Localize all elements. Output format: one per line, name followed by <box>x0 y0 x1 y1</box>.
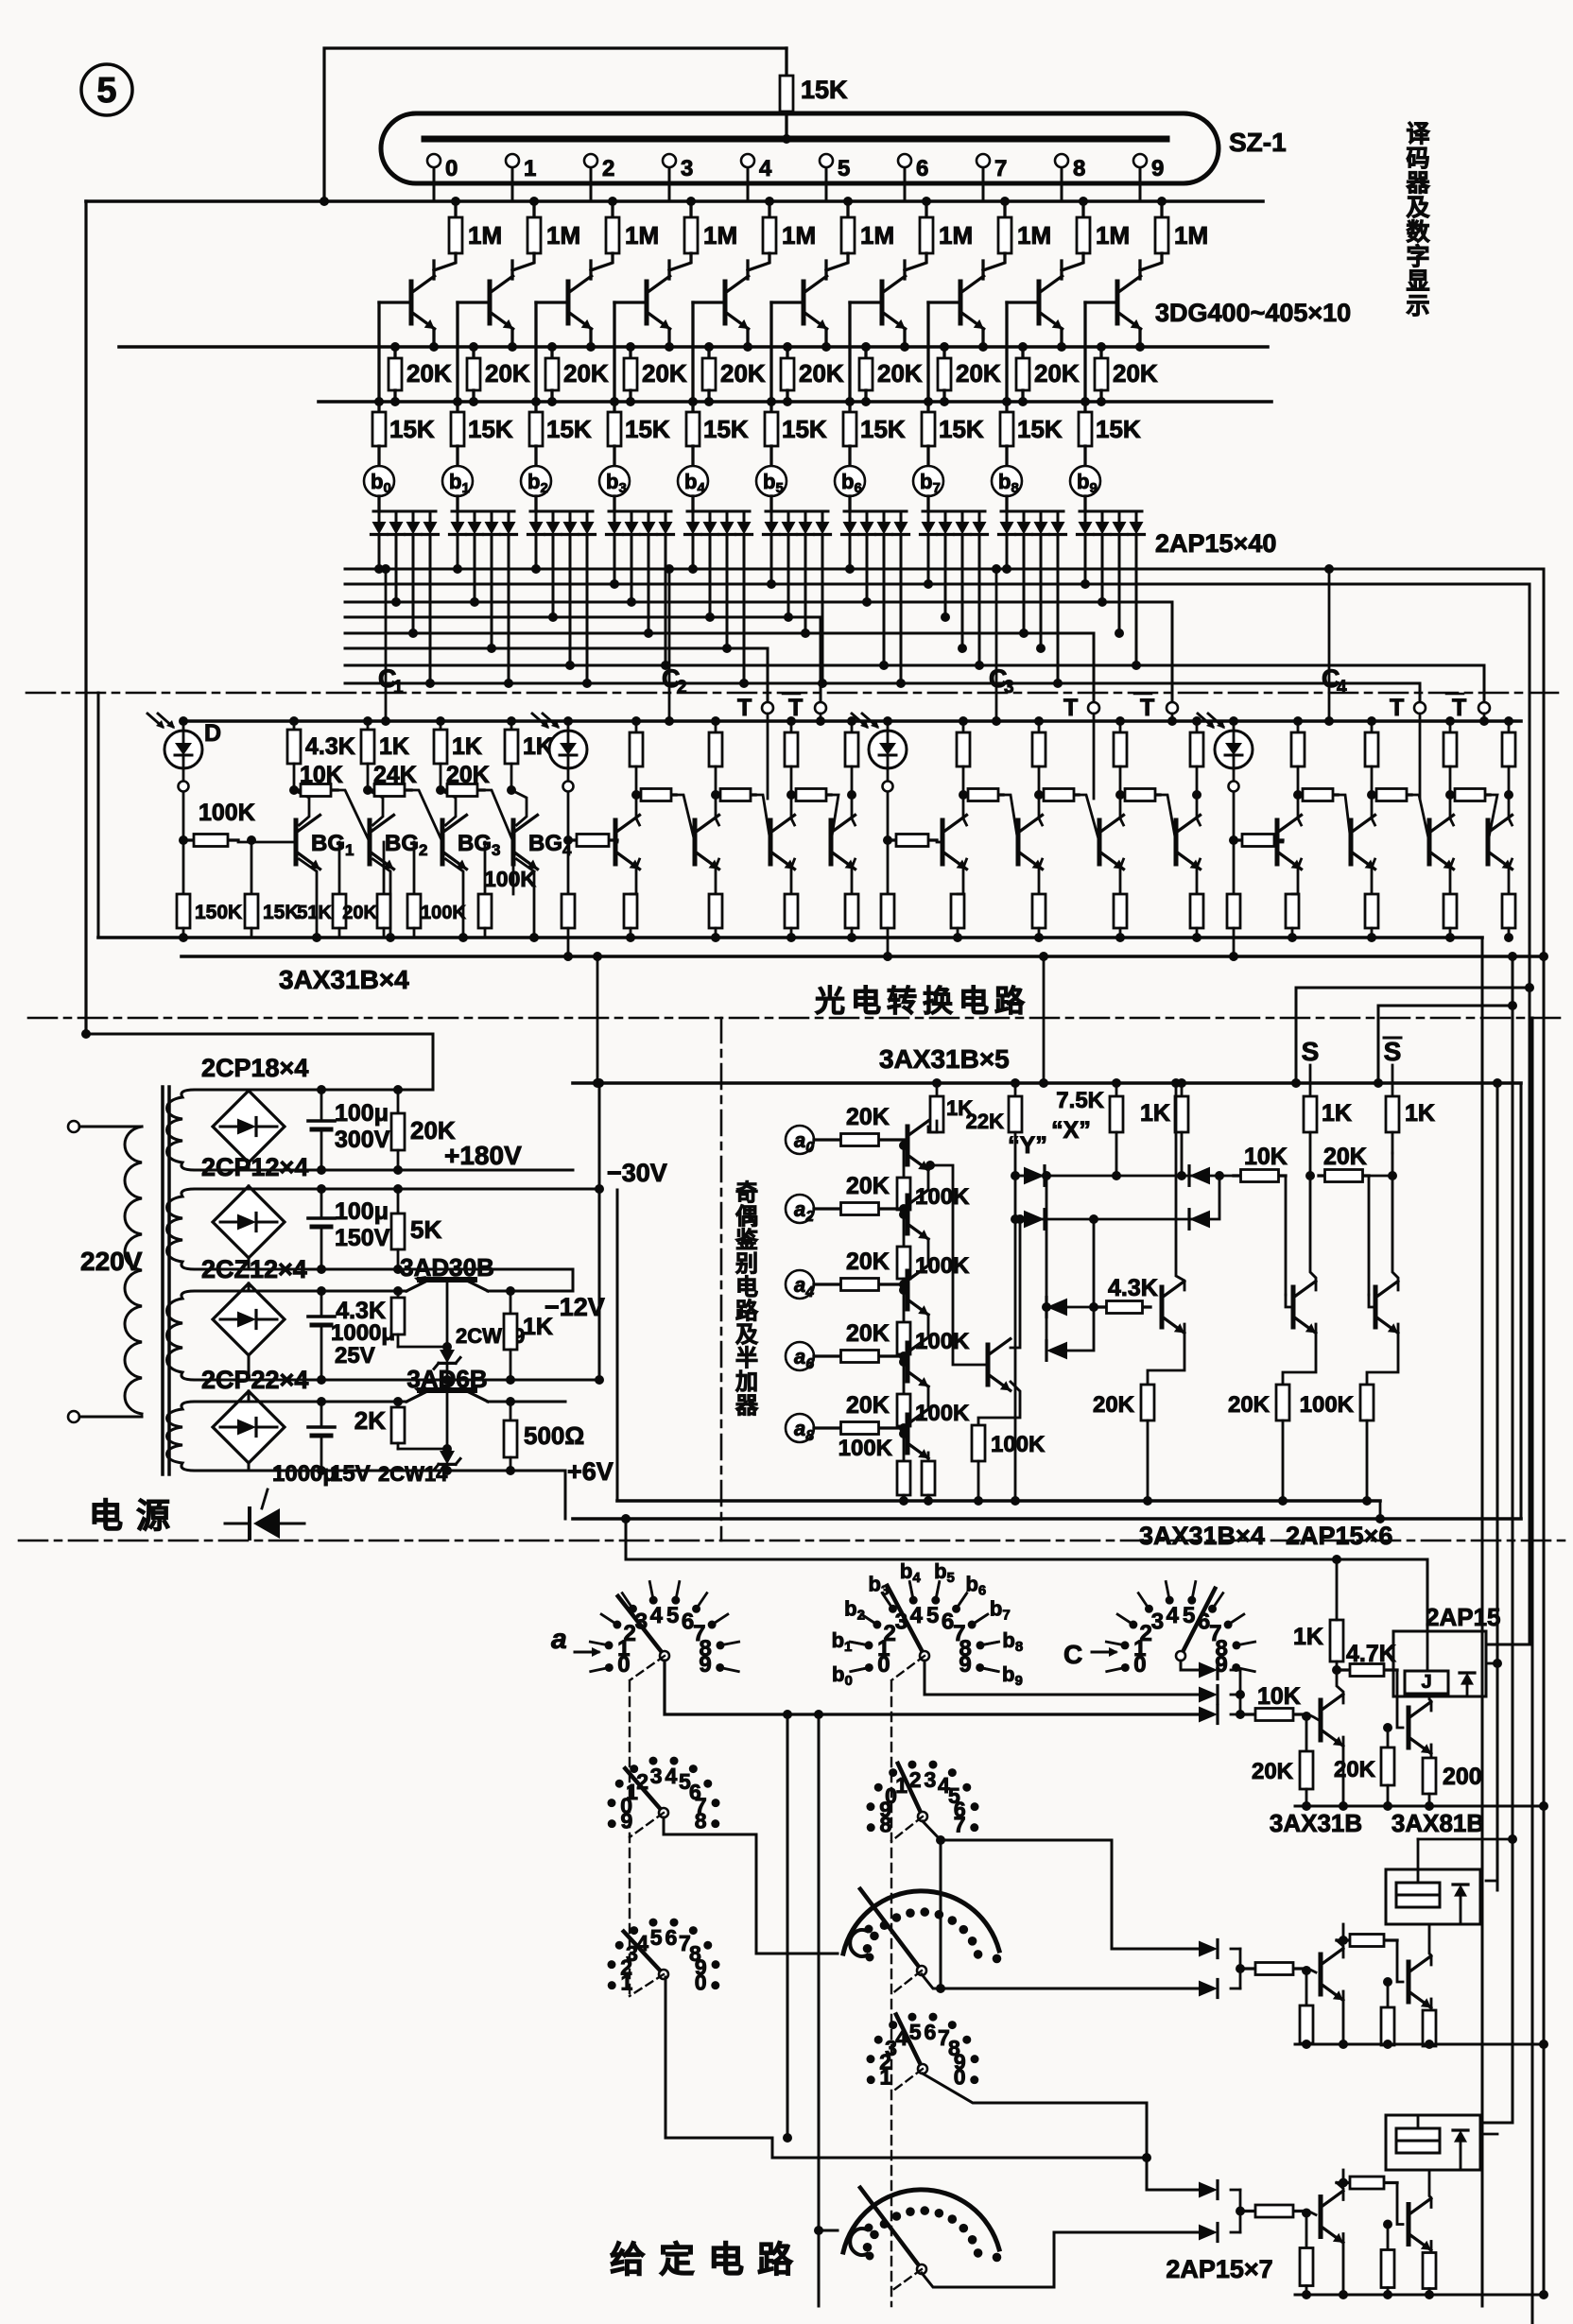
nixie tube SZ-1 envelope <box>381 113 1219 183</box>
capacitor 1000u25V <box>320 1291 323 1316</box>
svg-text:15K: 15K <box>546 415 592 443</box>
terminal Tbar <box>1478 702 1490 714</box>
resistor 4.3K parity <box>1098 1305 1107 1308</box>
wire collector x=1512 <box>1450 795 1454 825</box>
svg-text:15K: 15K <box>703 415 749 443</box>
svg-text:−30V: −30V <box>607 1159 667 1187</box>
transistor 3AX31B at x=651 <box>614 820 618 864</box>
wire S2-S3 link <box>572 1269 575 1291</box>
resistor emitter x=1163 <box>1114 894 1127 928</box>
resistor 500ohm <box>510 1402 512 1420</box>
wire vertical drop 2 <box>818 1714 821 2306</box>
wire +180V feed to nixie anode <box>324 48 786 201</box>
resistor 15K anode <box>785 48 787 76</box>
resistor base h at x=601 <box>568 838 577 841</box>
photodiode at x=939 <box>869 731 907 768</box>
svg-text:24K: 24K <box>373 762 417 788</box>
resistor 1M col1 <box>532 201 535 217</box>
wire emitter col7 <box>981 329 984 347</box>
rail +6V <box>249 1470 565 1472</box>
resistor 24K coupling BG2 <box>368 788 374 791</box>
rail S2 bottom <box>249 1268 573 1271</box>
svg-text:4.3K: 4.3K <box>305 733 355 760</box>
wire diode col6.2 to code bus 6 <box>883 535 886 665</box>
resistor 4.7K <box>1337 2181 1350 2184</box>
wire diode col7.0 to code bus 1 <box>927 535 930 584</box>
resistor 20K a4 <box>814 1283 841 1285</box>
wire emitter x=997 <box>963 859 967 894</box>
input a6 <box>786 1342 814 1370</box>
wire collector x=1429 <box>1372 795 1375 825</box>
wire sector I output <box>922 2232 1201 2287</box>
wire base col7 <box>928 301 960 303</box>
switch arm <box>1181 1589 1215 1656</box>
svg-text:200: 200 <box>1443 1764 1482 1790</box>
wire bridge to rails <box>195 1188 249 1191</box>
wire Q2 base <box>1397 1940 1403 1982</box>
wire switch a output <box>665 1661 1201 1714</box>
svg-text:2CP18×4: 2CP18×4 <box>201 1054 308 1082</box>
wire diode col9.1 to code bus 2 <box>1101 535 1104 602</box>
wire emitter x=1163 <box>1120 859 1124 894</box>
svg-text:1M: 1M <box>782 221 816 250</box>
wire relay3 right <box>1480 2133 1497 2136</box>
wire left border vertical <box>84 201 87 1034</box>
resistor base h at x=1305 <box>1234 838 1242 841</box>
svg-text:300V: 300V <box>335 1127 390 1153</box>
lamp b3 <box>599 466 630 496</box>
svg-text:9: 9 <box>1151 156 1164 181</box>
svg-text:示: 示 <box>1406 293 1429 319</box>
resistor 10K coupling BG1 <box>294 788 301 791</box>
wire -30V to bottom rail <box>616 1190 619 1501</box>
diode group col8 (4x 2AP15) <box>1005 496 1008 511</box>
resistor Q2 base-down <box>1383 2220 1392 2229</box>
wire Q1 collector <box>1337 1940 1343 1957</box>
resistor 10K <box>1240 1967 1255 1970</box>
svg-text:3: 3 <box>924 1767 936 1792</box>
svg-text:51K: 51K <box>297 903 332 923</box>
svg-text:2CP12×4: 2CP12×4 <box>201 1153 308 1181</box>
wire left border 2 <box>97 693 100 938</box>
resistor 20K col4 <box>707 347 710 358</box>
resistor emitter x=735 <box>709 894 722 928</box>
svg-text:100K: 100K <box>199 800 255 826</box>
svg-text:15K: 15K <box>1017 415 1063 443</box>
wire diode col2.3 to code bus 7 <box>586 535 589 683</box>
wire relay1 right <box>1486 1662 1497 1665</box>
resistor bottom 20K <box>383 842 386 894</box>
resistor bottom at x=601 <box>567 840 570 894</box>
bridge rectifier 2CP22×4 <box>213 1391 285 1463</box>
wire Q1 base-20K <box>1302 1712 1311 1721</box>
wire emitter col3 <box>667 329 670 347</box>
wire collector BG4 <box>511 790 527 825</box>
resistor emitter x=997 <box>951 894 964 928</box>
resistor 1M col8 <box>1081 201 1084 217</box>
svg-text:2AP15: 2AP15 <box>1426 1603 1501 1631</box>
wire base x=1512 <box>1428 841 1431 844</box>
svg-text:−12V: −12V <box>544 1293 605 1321</box>
sector switch arm <box>860 1889 922 1971</box>
wire collector x=815 <box>791 795 795 825</box>
svg-text:1000μ: 1000μ <box>331 1320 395 1346</box>
wire base BG1 <box>238 841 296 844</box>
wire diode col8.1 to code bus 4 <box>1023 535 1026 633</box>
wire emitter col8 <box>1060 329 1063 347</box>
svg-text:15K: 15K <box>468 415 513 443</box>
resistor 15K col1 <box>456 402 458 412</box>
svg-text:10K: 10K <box>1257 1683 1301 1710</box>
svg-text:15K: 15K <box>860 415 906 443</box>
wire right edge x1621 <box>1531 1018 1534 2324</box>
svg-text:7.5K: 7.5K <box>1056 1088 1104 1113</box>
svg-text:及: 及 <box>735 1322 758 1348</box>
svg-text:2: 2 <box>602 156 614 181</box>
svg-text:15K: 15K <box>625 415 670 443</box>
svg-text:2: 2 <box>677 678 687 697</box>
sector switch body <box>843 1891 999 1954</box>
transistor 3DG400 col3 <box>667 261 670 279</box>
wire emitter-collector stack 1 <box>927 1239 930 1265</box>
resistor 1K stack top <box>936 1083 939 1096</box>
transistor BG4 <box>511 820 516 864</box>
wire base x=1574 <box>1487 841 1490 844</box>
wire Sbar exit loop <box>1378 1006 1512 1083</box>
lamp b9 <box>1070 466 1100 496</box>
diode group col9 (4x 2AP15) <box>1083 496 1086 511</box>
svg-text:1M: 1M <box>546 221 580 250</box>
relay 1 diode <box>1461 1673 1474 1685</box>
relay input diodes <box>1199 2182 1218 2198</box>
svg-text:10K: 10K <box>1244 1144 1288 1170</box>
svg-text:1K: 1K <box>1293 1624 1323 1650</box>
diode group col3 (4x 2AP15) <box>613 496 615 511</box>
wire sector G output <box>922 1974 1201 1988</box>
rail S3 top <box>249 1290 406 1293</box>
transistor 3DG400 col8 <box>1060 261 1063 279</box>
svg-text:20K: 20K <box>563 359 609 387</box>
resistor 1M col2 <box>611 201 614 217</box>
svg-text:1000μ: 1000μ <box>272 1461 337 1487</box>
wire emitter x=1351 <box>1298 859 1302 894</box>
transistor adder output <box>986 1345 991 1385</box>
svg-text:电: 电 <box>735 1275 758 1300</box>
resistor 10K <box>1240 2210 1255 2212</box>
svg-text:译: 译 <box>1406 121 1430 147</box>
resistor 20K mid emitter <box>1141 1385 1154 1420</box>
resistor emitter bottom stack <box>927 1453 930 1461</box>
svg-text:鉴: 鉴 <box>735 1228 759 1253</box>
resistor emitter x=879 <box>845 894 858 928</box>
svg-text:+180V: +180V <box>444 1141 522 1170</box>
svg-text:4.3K: 4.3K <box>1108 1275 1158 1301</box>
svg-text:T: T <box>737 695 752 721</box>
wire collector x=1163 <box>1120 795 1124 825</box>
svg-text:1M: 1M <box>1096 221 1130 250</box>
wires Tbar inputs to rail <box>820 714 822 721</box>
wire switch b output <box>925 1661 1201 1695</box>
terminal 220V top <box>68 1121 79 1132</box>
terminal T <box>1088 702 1099 714</box>
transistor 3AX31B at x=735 <box>693 820 698 864</box>
diode row4 <box>1046 1307 1048 1351</box>
wire +180V up <box>86 1034 433 1090</box>
svg-text:6: 6 <box>665 1925 677 1950</box>
wire bridge to rails <box>195 1401 249 1403</box>
svg-text:20K: 20K <box>1252 1759 1294 1784</box>
svg-text:2K: 2K <box>354 1406 386 1435</box>
resistor 20K parity <box>1319 1174 1325 1177</box>
wire S line <box>1309 1065 1312 1096</box>
wire emitter x=1574 <box>1509 859 1512 894</box>
wire bus6 to C4 Tbar <box>1483 665 1486 702</box>
resistor 15K (C1) <box>251 840 253 894</box>
resistor 1K (top, BG4) <box>510 721 513 730</box>
svg-text:1: 1 <box>524 156 536 181</box>
relay box <box>1386 2115 1480 2170</box>
resistor collector-load x=1244 <box>1196 721 1199 732</box>
wire collector x=997 <box>963 795 967 825</box>
transistor stack Q2 <box>906 1271 910 1309</box>
wire diode col5.0 to code bus 1 <box>770 535 773 584</box>
svg-text:15K: 15K <box>389 415 435 443</box>
svg-text:T: T <box>1063 695 1078 721</box>
resistor 10K parity <box>1234 1174 1241 1177</box>
wire diode col0.3 to code bus 7 <box>429 535 432 683</box>
resistor 100K bottom-left stack <box>903 1434 906 1461</box>
diode group col7 (4x 2AP15) <box>926 496 929 511</box>
transistor 3AX31B at x=1077 <box>1016 820 1021 864</box>
dash-dot vertical parity-left <box>720 1018 723 1541</box>
wire base x=1429 <box>1350 841 1353 844</box>
wire emitter col0 <box>432 329 435 347</box>
transistor Sbar out <box>1374 1287 1378 1327</box>
resistor coupling h x=1077 <box>1039 793 1044 796</box>
wire Sbar line <box>1391 1065 1394 1096</box>
wire emitter-collector stack 0 <box>927 1170 930 1190</box>
relay block 1 diodes (2AP15) <box>1199 1662 1218 1678</box>
resistor collector-load x=1351 <box>1297 721 1300 732</box>
wire diode col7.2 to code bus 5 <box>961 535 964 648</box>
resistor collector-load x=879 <box>851 721 854 732</box>
wire Q2 collector <box>1429 1696 1431 1711</box>
wire diode col4.1 to code bus 3 <box>709 535 712 617</box>
svg-text:100K: 100K <box>915 1184 970 1210</box>
svg-text:150V: 150V <box>335 1225 390 1251</box>
diode row3 <box>1046 1176 1048 1307</box>
wire diode col9.0 to code bus 1 <box>1084 535 1087 584</box>
resistor collector-load x=997 <box>962 721 965 732</box>
switch b link dash <box>891 1656 925 1680</box>
relay diode <box>1454 2130 1467 2143</box>
svg-text:1M: 1M <box>468 221 502 250</box>
wire base x=651 <box>615 841 617 844</box>
svg-text:1K: 1K <box>379 733 409 760</box>
transistor 3DG400 col0 <box>432 261 435 279</box>
resistor collector-load x=1512 <box>1449 721 1452 732</box>
svg-text:T: T <box>1452 695 1466 721</box>
resistor bottom 100K <box>413 842 416 894</box>
wire emitter col1 <box>510 329 513 347</box>
svg-text:20K: 20K <box>1113 359 1158 387</box>
transistor 3AX31B at x=1574 <box>1486 820 1491 864</box>
resistor 1M col0 <box>454 201 457 217</box>
wire Q2 emitter + resistor 200 <box>1430 1745 1433 1758</box>
diode row2 (Y row) <box>1015 1218 1026 1221</box>
zener 2CW19 <box>440 1350 455 1363</box>
transformer core <box>161 1087 164 1474</box>
wire diode col0.0 to code bus 0 <box>378 535 381 569</box>
svg-text:显: 显 <box>1406 268 1429 295</box>
svg-text:“X”: “X” <box>1051 1117 1091 1144</box>
transformer secondary 2CZ12×4 <box>167 1291 196 1380</box>
svg-text:6: 6 <box>916 156 928 181</box>
resistor 1M col3 <box>689 201 692 217</box>
transistor Q2 <box>1407 1962 1411 2002</box>
photo section bottom rail A <box>98 936 1482 939</box>
capacitor 100u150V <box>320 1189 323 1217</box>
transistor 3DG400 col4 <box>746 261 749 279</box>
resistor 15K col9 <box>1083 402 1086 412</box>
resistor 15K col0 <box>377 402 380 412</box>
svg-text:20K: 20K <box>406 359 452 387</box>
input a2 <box>786 1195 814 1223</box>
svg-text:9: 9 <box>699 1652 711 1678</box>
svg-text:4: 4 <box>1337 678 1347 697</box>
transistor 3AX31B at x=1244 <box>1174 820 1179 864</box>
transistor 3AX31B at x=879 <box>829 820 834 864</box>
lamp b5 <box>756 466 786 496</box>
transistor BG2 <box>368 820 372 864</box>
svg-text:20K: 20K <box>956 359 1001 387</box>
wire relay2 rail to edge <box>1486 2043 1544 2046</box>
transistor BG1 <box>294 820 299 864</box>
svg-text:20K: 20K <box>485 359 530 387</box>
diode row1 (X row) <box>1015 1175 1026 1178</box>
transistor 3AX31B at x=1512 <box>1427 820 1432 864</box>
zener 2CW14 <box>440 1451 455 1464</box>
svg-text:0: 0 <box>445 156 458 181</box>
svg-text:光电转换电路: 光电转换电路 <box>815 984 1030 1018</box>
wire collector BG2 <box>368 790 383 825</box>
svg-text:1M: 1M <box>703 221 737 250</box>
terminal T <box>1414 702 1426 714</box>
svg-text:10K: 10K <box>300 762 343 788</box>
resistor 20K relay1 q2 <box>1383 1723 1392 1732</box>
svg-text:1M: 1M <box>939 221 973 250</box>
transistor stack Q0 <box>906 1127 910 1164</box>
svg-text:3AX31B×4: 3AX31B×4 <box>279 965 409 994</box>
svg-text:4: 4 <box>650 1603 664 1628</box>
resistor Q2 base-down <box>1383 1977 1392 1987</box>
resistor coupling h x=1351 <box>1298 793 1303 796</box>
wire base x=879 <box>830 841 833 844</box>
wire diode col4.3 to code bus 7 <box>743 535 746 683</box>
bridge rectifier 2CP12×4 <box>213 1186 285 1258</box>
resistor emitter x=1077 <box>1032 894 1046 928</box>
wire bus3 to C2 Tbar <box>820 617 822 702</box>
resistor 1K S <box>1304 1096 1317 1132</box>
resistor 15K col7 <box>926 402 929 412</box>
resistor 1K (top, BG2) <box>367 721 370 730</box>
resistor 2K <box>397 1402 400 1407</box>
wire Q2 base <box>1397 2183 1403 2225</box>
wire emitter x=1077 <box>1039 859 1043 894</box>
resistor 20K coupling BG3 <box>441 788 447 791</box>
wire collector x=735 <box>716 795 719 825</box>
wire right edge x1568 <box>1481 938 1484 2306</box>
resistor 1K Sbar <box>1386 1096 1399 1132</box>
wire Sbar-base link <box>1369 1175 1392 1178</box>
wire diode col1.2 to code bus 5 <box>491 535 493 648</box>
svg-text:S: S <box>1302 1037 1320 1066</box>
resistor 15K col6 <box>848 402 851 412</box>
resistor base h at x=939 <box>888 838 896 841</box>
wire base x=1244 <box>1175 841 1178 844</box>
wire diode col2.1 to code bus 3 <box>552 535 555 617</box>
svg-text:25V: 25V <box>335 1343 375 1369</box>
svg-text:C: C <box>1063 1640 1082 1669</box>
svg-text:1K: 1K <box>1322 1100 1352 1127</box>
wire Q2 collector <box>1429 1924 1431 1965</box>
svg-text:1M: 1M <box>1017 221 1051 250</box>
wire diode col2.2 to code bus 6 <box>569 535 572 665</box>
wire Q1 collector up <box>1342 1924 1345 1940</box>
bridge rectifier 2CZ12×4 <box>213 1283 285 1355</box>
bridge rectifier 2CP18×4 <box>213 1091 285 1162</box>
wire emitter BG3 <box>446 859 464 938</box>
lamp b8 <box>992 466 1022 496</box>
svg-text:20K: 20K <box>846 1248 890 1275</box>
wire diode col9.3 to code bus 6 <box>1135 535 1138 665</box>
nixie anode bar <box>424 136 1167 143</box>
capacitor 100u 150V <box>308 1216 335 1220</box>
sheet number 5 <box>81 64 132 115</box>
resistor 15K col4 <box>691 402 694 412</box>
switch a link dash <box>630 1656 665 1680</box>
transistor stack Q3 <box>906 1343 910 1381</box>
resistor 150K <box>182 840 185 894</box>
resistor 15K col2 <box>534 402 537 412</box>
resistor 1M col6 <box>925 201 927 217</box>
wire emitter x=651 <box>636 859 640 894</box>
resistor bottom <box>484 842 487 894</box>
wire Q2 emitter + resistor <box>1430 2242 1433 2253</box>
resistor 20K S1 <box>397 1090 400 1113</box>
wire Q1 collector <box>1337 2183 1343 2200</box>
resistor 10K relay1 <box>1240 1713 1255 1715</box>
sector hook contact <box>850 1930 867 1956</box>
wire collector x=1574 <box>1509 795 1512 825</box>
resistor 15K col5 <box>769 402 772 412</box>
svg-text:给定电路: 给定电路 <box>610 2241 806 2281</box>
svg-text:3AX31B×5: 3AX31B×5 <box>879 1044 1010 1074</box>
svg-text:3AD6B: 3AD6B <box>406 1365 487 1393</box>
svg-text:1K: 1K <box>1405 1100 1435 1127</box>
svg-text:20K: 20K <box>1323 1144 1367 1170</box>
resistor 20K col5 <box>786 347 788 358</box>
wire S emitter <box>1283 1324 1316 1385</box>
diode group col5 (4x 2AP15) <box>769 496 772 511</box>
resistor 100K stack 1 <box>903 1214 906 1247</box>
rail S1 bottom <box>249 1169 573 1172</box>
wire diode col5.1 to code bus 3 <box>787 535 790 617</box>
lamp b6 <box>835 466 865 496</box>
lamp b2 <box>521 466 551 496</box>
svg-text:电源: 电源 <box>89 1496 183 1535</box>
svg-text:100μ: 100μ <box>335 1198 389 1225</box>
